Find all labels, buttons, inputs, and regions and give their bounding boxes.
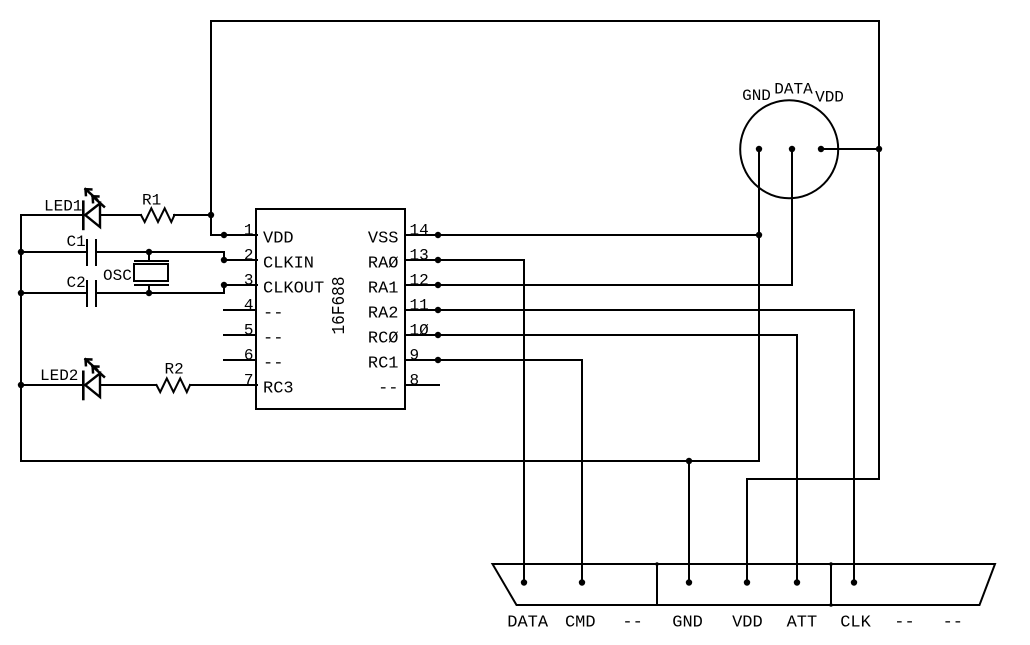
svg-text:GND: GND (672, 614, 703, 633)
node connector GND pin (686, 579, 692, 585)
wire C1 left (21, 251, 87, 253)
wire pin12 RA1 to plug DATA (405, 149, 792, 285)
wire connector divider 1 (656, 564, 658, 605)
svg-text:ATT: ATT (787, 614, 818, 633)
svg-text:--: -- (263, 330, 283, 349)
svg-text:RAØ: RAØ (368, 255, 399, 274)
connector J2 pad trapezoid (493, 564, 996, 605)
node plug GND pin (756, 146, 762, 152)
svg-text:VDD: VDD (263, 230, 294, 249)
node pin12 (435, 282, 441, 288)
svg-text:16F688: 16F688 (330, 277, 350, 335)
IC U1 16F688 body (256, 209, 405, 409)
pin 5 stub (224, 334, 256, 336)
wire pin1 VDD to IC (211, 234, 257, 236)
svg-text:3: 3 (244, 272, 254, 290)
wire R1 right lead to junction (174, 214, 211, 216)
LED LED2 (83, 359, 104, 399)
node plug VDD pin (818, 146, 824, 152)
wire top VDD bus (211, 21, 879, 582)
node pin1 connection (221, 232, 227, 238)
svg-text:6: 6 (244, 347, 254, 365)
svg-text:--: -- (943, 614, 963, 633)
node VDD bus junction (876, 146, 882, 152)
svg-text:RC3: RC3 (263, 380, 294, 399)
pin 4 stub (224, 309, 256, 311)
svg-text:4: 4 (244, 297, 254, 315)
node pin2 connection (221, 257, 227, 263)
svg-text:OSC: OSC (103, 267, 132, 285)
wire GND left rail (21, 215, 759, 461)
svg-text:RC1: RC1 (368, 355, 399, 374)
pin 8 stub (405, 384, 439, 386)
svg-text:CLKIN: CLKIN (263, 255, 314, 274)
svg-text:CMD: CMD (565, 614, 596, 633)
wire pin11 RA2 to connector CLK (405, 310, 854, 582)
svg-text:C1: C1 (67, 233, 86, 251)
svg-text:--: -- (622, 614, 642, 633)
svg-text:14: 14 (410, 222, 429, 240)
svg-text:GND: GND (742, 87, 771, 105)
svg-text:DATA: DATA (774, 81, 813, 99)
wire C1 right to pin2 CLKIN (96, 252, 257, 260)
node pin10 (435, 332, 441, 338)
svg-text:--: -- (263, 355, 283, 374)
crystal OSC (134, 252, 168, 293)
node pin11 (435, 307, 441, 313)
svg-text:DATA: DATA (507, 614, 549, 633)
node OSC top junction (146, 249, 152, 255)
wire pin14 VSS to GND vertical (405, 234, 759, 236)
wire plug VDD to right bus (821, 148, 879, 150)
node divider2 bottom (829, 603, 833, 607)
LED LED1 (83, 189, 104, 229)
svg-text:VDD: VDD (815, 89, 844, 107)
svg-text:--: -- (894, 614, 914, 633)
node connector VDD pin (744, 579, 750, 585)
wire plug GND vertical (758, 149, 760, 461)
node divider1 top (655, 562, 659, 566)
wire pin10 RC0 to connector ATT (405, 335, 797, 582)
svg-text:C2: C2 (67, 274, 86, 292)
node connector ATT pin (794, 579, 800, 585)
wire LED2 left (21, 384, 83, 386)
node plug DATA pin (789, 146, 795, 152)
svg-text:12: 12 (410, 272, 429, 290)
wire LED2 to R2 (100, 384, 156, 386)
node left rail / C2 wire (18, 290, 24, 296)
wire pin13 RA0 to connector DATA (405, 260, 524, 582)
svg-text:--: -- (378, 380, 398, 399)
capacitor C1 (87, 240, 96, 265)
svg-text:1: 1 (244, 222, 254, 240)
node pin3 connection (221, 282, 227, 288)
svg-text:CLKOUT: CLKOUT (263, 280, 324, 299)
connector J1 power plug circle (740, 100, 838, 198)
node pin9 (435, 357, 441, 363)
svg-text:LED2: LED2 (40, 367, 78, 385)
node connector DATA pin (521, 579, 527, 585)
node pin13 (435, 257, 441, 263)
node pin14 (435, 232, 441, 238)
svg-text:VSS: VSS (368, 230, 399, 249)
svg-text:7: 7 (244, 372, 254, 390)
wire C2 right to pin3 CLKOUT (96, 285, 257, 293)
svg-text:RCØ: RCØ (368, 330, 399, 349)
svg-text:LED1: LED1 (44, 198, 82, 216)
wire LED1 anode lead (21, 214, 83, 216)
node left rail / LED2 wire (18, 382, 24, 388)
node connector CMD pin (579, 579, 585, 585)
svg-text:8: 8 (410, 372, 420, 390)
capacitor C2 (87, 281, 96, 306)
svg-text:13: 13 (410, 247, 429, 265)
wire LED1 to R1 (100, 214, 141, 216)
wire C2 left (21, 292, 87, 294)
node left rail / C1 wire (18, 249, 24, 255)
pin 6 stub (224, 359, 256, 361)
resistor R2 (157, 378, 191, 392)
node R1/top-bus junction (208, 212, 214, 218)
svg-text:RA1: RA1 (368, 280, 399, 299)
wire R2 to pin7 RC3 (190, 384, 257, 386)
resistor R1 (141, 208, 175, 222)
svg-text:5: 5 (244, 322, 254, 340)
svg-text:9: 9 (410, 347, 420, 365)
svg-text:2: 2 (244, 247, 254, 265)
svg-text:R2: R2 (165, 361, 184, 379)
svg-text:1Ø: 1Ø (410, 322, 430, 340)
node OSC bottom junction (146, 290, 152, 296)
svg-text:CLK: CLK (840, 614, 871, 633)
svg-text:R1: R1 (142, 192, 161, 210)
svg-text:--: -- (263, 305, 283, 324)
svg-text:RA2: RA2 (368, 305, 399, 324)
svg-text:11: 11 (410, 297, 429, 315)
node connector CLK pin (851, 579, 857, 585)
wire pin9 RC1 to connector CMD (405, 360, 582, 582)
wire GND drop to connector (688, 461, 690, 582)
node GND drop junction (686, 458, 692, 464)
wire connector divider 2 (830, 564, 832, 605)
node VSS/GND junction (756, 232, 762, 238)
node divider2 top (829, 562, 833, 566)
svg-text:VDD: VDD (732, 614, 763, 633)
